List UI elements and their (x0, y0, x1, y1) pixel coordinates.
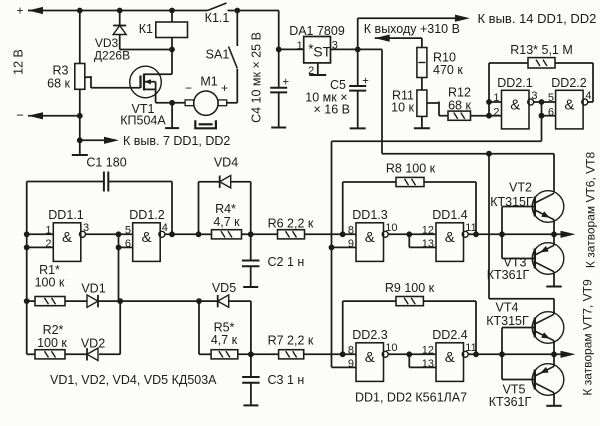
resistor R10 (417, 48, 463, 78)
svg-text:К1: К1 (139, 22, 153, 36)
wire R3 branch (79, 11, 81, 156)
ground common bar R11 (414, 127, 430, 129)
wire DD2.4 out row (468, 351, 568, 357)
svg-text:100 к: 100 к (37, 336, 67, 350)
wire source node row (156, 100, 186, 128)
svg-text:DD1.4: DD1.4 (432, 208, 467, 222)
resistor R11 (391, 89, 427, 117)
label VT3 (487, 256, 530, 282)
svg-text:1: 1 (297, 40, 303, 52)
ground bar VT5 (546, 405, 562, 407)
ground common bar DA1 pin2 (309, 74, 326, 76)
label DD2.2 (551, 76, 586, 90)
ground common bar C4 (271, 127, 286, 129)
pin 6 DD2.2 (548, 106, 554, 118)
pin 13 DD2.4 (422, 358, 434, 370)
svg-text:−: − (16, 108, 24, 123)
wire R4 to R6 (242, 233, 278, 235)
label DD1.2 (129, 208, 164, 222)
svg-text:2: 2 (45, 238, 51, 250)
svg-text:10: 10 (385, 222, 397, 234)
svg-text:КТ361Г: КТ361Г (489, 395, 532, 409)
pin 9 DD2.3 (348, 358, 354, 370)
wire DD2.3 out (388, 351, 436, 367)
svg-text:1: 1 (493, 92, 499, 104)
gate DD2.1 (502, 90, 534, 129)
label VT2 (490, 181, 533, 210)
svg-text:&: & (445, 229, 455, 246)
label DD1.4 (432, 208, 467, 222)
pin 8 DD2.3 (348, 344, 354, 356)
svg-text:КП504А: КП504А (120, 114, 166, 128)
pin 12 DD1.4 (422, 224, 434, 236)
svg-text:470 к: 470 к (433, 63, 463, 77)
svg-text:R2*: R2* (43, 323, 64, 337)
wire DD2.1 out (534, 99, 556, 141)
label 12 V supply (12, 49, 26, 75)
svg-text:100 к: 100 к (35, 276, 65, 290)
pin 13 DD1.4 (422, 238, 434, 250)
pin 8 DD1.3 (348, 224, 354, 236)
wire DD2.1 pin1 (489, 101, 502, 103)
wire VD1 node to VD5 node (120, 298, 202, 304)
pin 6 DD1.2 (125, 238, 131, 250)
gate DD2.2 (556, 90, 588, 129)
diode VD5 (212, 281, 236, 307)
svg-text:4: 4 (162, 222, 168, 234)
svg-text:DA1 7809: DA1 7809 (289, 24, 345, 38)
svg-text:VD2: VD2 (81, 337, 105, 351)
svg-text:DD2.3: DD2.3 (352, 328, 387, 342)
wire R1 left (27, 300, 35, 302)
wire VT3 emitter (553, 234, 555, 245)
wire gating line to DD1.3/DD2.3 (329, 141, 542, 367)
wire DD1.1 out to DD1.2 (86, 231, 133, 301)
svg-text:&: & (365, 349, 375, 366)
label DD1.1 (48, 208, 83, 222)
wire C1 right leg (169, 182, 175, 238)
svg-text:12 В: 12 В (12, 49, 26, 75)
transistor VT2 KT315G (532, 191, 564, 223)
wire R7 to DD2.3 (304, 351, 356, 357)
svg-text:DD2.2: DD2.2 (551, 76, 586, 90)
svg-text:12: 12 (422, 344, 434, 356)
resistor R3 (47, 64, 85, 91)
wire DD2.2 pin6 (542, 115, 556, 117)
wire DD1.1 pin2 (27, 246, 54, 248)
label K zatvoram VT7 VT9 (581, 279, 595, 396)
pin 5 DD2.2 (548, 92, 554, 104)
wire R10-R11 (421, 78, 423, 91)
label VT5 (489, 383, 532, 409)
svg-text:3: 3 (531, 90, 537, 102)
transistor VT5 KT361G (532, 364, 564, 396)
svg-text:+: + (282, 77, 289, 89)
svg-text:&: & (564, 96, 574, 113)
svg-text:&: & (62, 229, 72, 246)
wire VT3 collector (553, 272, 555, 287)
svg-text:6: 6 (125, 238, 131, 250)
ground common bar left rail (72, 154, 88, 156)
node arrow to VT7 VT9 gates (561, 351, 576, 358)
transistor VT4 KT315G (532, 312, 564, 344)
wire R2 left (27, 353, 35, 355)
node arrow to VT6 VT8 gates (561, 231, 576, 238)
pin 1 DD2.1 (493, 92, 499, 104)
svg-text:R4*: R4* (215, 202, 236, 216)
svg-text:+: + (16, 3, 23, 17)
label DD2.1 (497, 76, 532, 90)
label C4 (250, 32, 264, 123)
svg-text:&: & (141, 229, 151, 246)
svg-text:С4 10 мк × 25 В: С4 10 мк × 25 В (250, 32, 264, 123)
resistor R8 feedback (343, 162, 476, 235)
svg-text:DD1.2: DD1.2 (129, 208, 164, 222)
svg-text:DD1.1: DD1.1 (48, 208, 83, 222)
svg-text:9: 9 (348, 238, 354, 250)
gate DD2.4 (436, 343, 468, 382)
label DA1 7809 (289, 24, 345, 38)
svg-text:К затворам VT7, VT9: К затворам VT7, VT9 (581, 279, 595, 396)
transistor VT1 KP504A (130, 66, 162, 103)
label M1 (185, 75, 228, 96)
capacitor C4 (270, 47, 289, 128)
svg-text:−: − (185, 81, 192, 95)
pin 10 DD1.3 (385, 222, 397, 234)
svg-text:8: 8 (348, 344, 354, 356)
capacitor C3 (242, 354, 304, 405)
svg-text:VT2: VT2 (509, 181, 532, 195)
svg-text:+: + (362, 76, 369, 88)
label VT1 (120, 102, 166, 128)
svg-text:5: 5 (125, 224, 131, 236)
svg-text:SA1: SA1 (206, 48, 230, 62)
svg-text:VD4: VD4 (214, 156, 238, 170)
diode VD1 (81, 282, 105, 308)
svg-text:10: 10 (385, 342, 397, 354)
resistor R2 (35, 323, 67, 359)
junction dot R4/R6/C2 (248, 231, 254, 237)
diode VD4 (214, 156, 238, 188)
pin 3 DD2.1 (531, 90, 537, 102)
node K vyv.14 arrow (455, 11, 596, 26)
svg-text:R13* 5,1 М: R13* 5,1 М (510, 43, 573, 57)
node +12V supply arrow (16, 3, 43, 17)
pin 2 DA1 (308, 63, 318, 77)
svg-text:68 к: 68 к (448, 99, 471, 113)
pin 4 DD2.2 (585, 90, 591, 102)
wire DA1 input (279, 48, 304, 50)
svg-text:ST: ST (313, 44, 331, 60)
wire VD2 rail (99, 301, 120, 354)
svg-text:6: 6 (548, 106, 554, 118)
switch K1.1 (205, 3, 230, 25)
svg-text:68 к: 68 к (47, 77, 70, 91)
svg-text:R9 100 к: R9 100 к (385, 281, 435, 295)
svg-text:C3 1 н: C3 1 н (268, 373, 305, 387)
wire +9V rail (382, 49, 554, 314)
diode VD3 (94, 11, 130, 63)
svg-text:DD1.3: DD1.3 (352, 208, 387, 222)
wire R5 to R7 (238, 351, 279, 357)
wire R6 to DD1.3 (305, 231, 357, 237)
motor M1 (185, 91, 227, 128)
gate DD1.2 (133, 223, 165, 262)
resistor R1 (35, 263, 65, 306)
svg-text:10 к: 10 к (391, 101, 414, 115)
junction dots top rail (77, 8, 83, 14)
svg-text:5: 5 (548, 92, 554, 104)
label DD2.3 (352, 328, 387, 342)
wire VT5 emitter (553, 354, 555, 366)
svg-text:4,7 к: 4,7 к (213, 215, 240, 229)
wire VD3-K1 node (120, 47, 175, 53)
svg-text:К1.1: К1.1 (205, 11, 230, 25)
pin 4 DD1.2 (162, 222, 168, 234)
svg-text:4: 4 (585, 90, 591, 102)
svg-text:К выв. 7 DD1, DD2: К выв. 7 DD1, DD2 (123, 134, 230, 148)
junction dot minus rail (77, 113, 83, 119)
wire R11 bottom (421, 116, 423, 128)
svg-text:2: 2 (493, 106, 499, 118)
switch SA1 (206, 11, 238, 69)
svg-text:× 16 В: × 16 В (314, 103, 351, 117)
label DD2.4 (432, 328, 467, 342)
pin 2 DD1.1 (45, 238, 51, 250)
svg-text:R8 100 к: R8 100 к (386, 162, 436, 176)
svg-text:12: 12 (422, 224, 434, 236)
resistor R13 (510, 43, 573, 68)
svg-text:+: + (221, 81, 228, 95)
svg-text:8: 8 (348, 224, 354, 236)
wire VD5 wiring (199, 301, 251, 354)
wire M1 to SA1 (227, 69, 238, 103)
wire VT2 emitter (553, 220, 555, 235)
svg-text:DD2.4: DD2.4 (432, 328, 467, 342)
wire left input rail (24, 182, 30, 355)
pin 3 DD1.1 (83, 222, 89, 234)
svg-text:&: & (510, 96, 520, 113)
svg-text:C2 1 н: C2 1 н (268, 255, 305, 269)
svg-text:3: 3 (83, 222, 89, 234)
gate DD1.4 (436, 223, 468, 262)
label VT4 (486, 301, 529, 329)
pin 10 DD2.3 (385, 342, 397, 354)
node K vyhodu +310V (364, 22, 460, 48)
svg-text:КТ361Г: КТ361Г (487, 268, 530, 282)
regulator DA1 7809 (304, 37, 332, 63)
svg-text:К выходу +310 В: К выходу +310 В (364, 22, 460, 36)
ground common bar C5 (350, 127, 366, 129)
pin 1 DA1 (297, 40, 303, 52)
pin 9 DD1.3 (348, 238, 354, 250)
svg-text:К выв. 14 DD1, DD2: К выв. 14 DD1, DD2 (478, 11, 597, 26)
resistor R6 (268, 217, 314, 239)
wire DD2.1 pin2 (489, 115, 502, 117)
wire +12V top rail (28, 11, 279, 50)
wire VT2 VT3 base bracket (502, 207, 535, 259)
wire VD4 branch legs (199, 182, 251, 235)
svg-text:КТ315Г: КТ315Г (486, 314, 529, 328)
junction dot GND tap (77, 137, 83, 143)
gate DD1.3 (356, 223, 388, 262)
capacitor C2 (242, 234, 304, 287)
label diodes type (50, 373, 217, 387)
wire to K vyv.14 (358, 18, 463, 49)
label DD1.3 (352, 208, 387, 222)
svg-text:9: 9 (348, 358, 354, 370)
pin 2 DD2.1 (493, 106, 499, 118)
svg-text:VT4: VT4 (496, 301, 519, 315)
wire R3 tap to VT1 gate (85, 76, 141, 88)
svg-text:К затворам VT6, VT8: К затворам VT6, VT8 (584, 152, 598, 269)
wire minus rail arrow (16, 108, 80, 123)
wire DD1.4 out row (468, 231, 568, 237)
svg-text:DD2.1: DD2.1 (497, 76, 532, 90)
pin 5 DD1.2 (125, 224, 131, 236)
resistor R5 (211, 321, 238, 359)
svg-text:С1 180: С1 180 (86, 156, 126, 170)
wire R12 to DD2.1 input (471, 115, 490, 117)
wire R1-VD1 (65, 300, 87, 302)
pin 1 DD1.1 (45, 224, 51, 236)
svg-text:КТ315Г: КТ315Г (490, 195, 533, 209)
capacitor C1 (27, 156, 172, 192)
pin 11 DD1.4 (465, 222, 476, 234)
svg-text:&: & (445, 349, 455, 366)
svg-text:R3: R3 (53, 64, 69, 78)
svg-text:R7 2,2 к: R7 2,2 к (268, 334, 314, 348)
svg-text:13: 13 (422, 358, 434, 370)
svg-text:DD1, DD2 К561ЛА7: DD1, DD2 К561ЛА7 (355, 391, 467, 405)
resistor R9 feedback (343, 281, 476, 354)
wire K1 node to VT1 drain (144, 50, 172, 75)
gate DD1.1 (53, 223, 85, 262)
wire VT4 emitter (553, 341, 555, 355)
wire DD1.1 pin1 (27, 233, 54, 235)
diode VD2 (81, 337, 105, 361)
wire DD1.2 output row (165, 231, 211, 237)
pin 11 DD2.4 (465, 342, 476, 354)
ground common bar VT1 source (165, 127, 179, 129)
transistor VT3 KT361G (532, 243, 564, 275)
ground common bar C2 (243, 286, 258, 288)
svg-text:&: & (365, 229, 375, 246)
gate DD2.3 (356, 343, 388, 382)
svg-text:1: 1 (45, 224, 51, 236)
junction dots DD2.1 inputs (486, 99, 492, 105)
label K zatvoram VT6 VT8 (584, 152, 598, 269)
resistor R13 feedback wire left (489, 63, 528, 102)
wire R13 right (555, 63, 593, 102)
resistor R4 (212, 202, 242, 239)
wire DA1 output (331, 47, 383, 53)
label C5 (305, 78, 350, 117)
wire R11 tap to R12 (427, 102, 448, 116)
svg-text:R12: R12 (448, 86, 471, 100)
ground bar VT3 (546, 286, 562, 288)
svg-text:М1: М1 (200, 75, 217, 89)
wire VT4 VT5 base bracket (502, 328, 535, 380)
svg-text:R6 2,2 к: R6 2,2 к (268, 217, 314, 231)
svg-text:4,7 к: 4,7 к (211, 333, 238, 347)
svg-text:VD5: VD5 (212, 281, 236, 295)
svg-text:Д226В: Д226В (94, 49, 130, 63)
relay coil K1 (139, 11, 188, 50)
svg-text:VD1: VD1 (81, 282, 105, 296)
label DD1 DD2 type (355, 391, 467, 405)
node K vyv.7 arrow (80, 134, 231, 148)
ground common bar C3 (243, 404, 258, 406)
wire VT5 collector (553, 393, 555, 406)
capacitor C5 (349, 49, 369, 128)
wire R2-VD2 (65, 353, 88, 355)
wire VD1 right (98, 298, 123, 304)
resistor R7 (268, 334, 314, 359)
wire DD1.3 out (388, 231, 436, 247)
resistor R12 (448, 86, 471, 121)
svg-text:VD1, VD2, VD4, VD5 КД503А: VD1, VD2, VD4, VD5 КД503А (50, 373, 217, 387)
pin 12 DD2.4 (422, 344, 434, 356)
pin 3 DA1 (332, 40, 338, 52)
svg-text:13: 13 (422, 238, 434, 250)
